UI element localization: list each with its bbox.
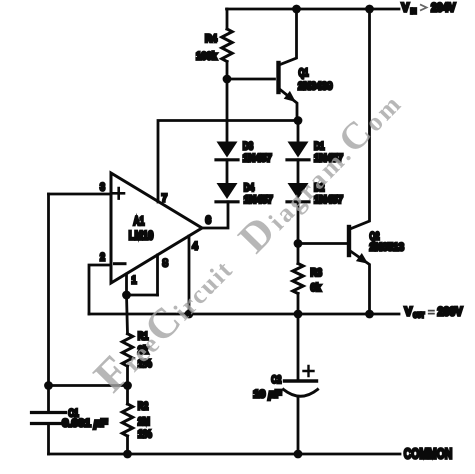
svg-text:IN: IN <box>411 7 417 16</box>
op-amp U1 A1 LM10 <box>100 173 211 287</box>
node R3 bottom VOUT <box>294 310 303 319</box>
svg-text:4: 4 <box>192 241 198 253</box>
node Q2 emitter VOUT <box>365 310 374 319</box>
diode D1 <box>287 141 343 184</box>
svg-text:6k: 6k <box>311 282 322 294</box>
node pin1 junction <box>122 291 131 300</box>
svg-text:1N457: 1N457 <box>244 194 273 206</box>
svg-text:R2: R2 <box>138 401 149 413</box>
wire pin1 to pin8 <box>127 294 158 297</box>
node Q2 collector on VIN rail <box>365 5 374 14</box>
wire top rail VIN <box>227 8 400 11</box>
svg-text:0.001 µF: 0.001 µF <box>62 418 108 430</box>
wire pin6 output to D4 <box>202 202 228 228</box>
svg-text:LM10: LM10 <box>129 229 154 243</box>
svg-text:D4: D4 <box>244 182 255 194</box>
svg-text:2: 2 <box>100 252 105 264</box>
resistor R3 <box>293 244 322 315</box>
svg-text:V: V <box>402 1 410 15</box>
svg-text:7: 7 <box>162 193 168 205</box>
net label VIN <box>402 1 456 16</box>
wire R4 node down to D3 <box>226 79 229 142</box>
diode D4 <box>216 182 273 206</box>
wire pin1 node down to R1 <box>127 295 128 334</box>
wire pin2 loop to VOUT line <box>89 265 111 314</box>
svg-text:200V: 200V <box>438 305 463 319</box>
node Q1 emitter / D1 top <box>294 116 303 125</box>
net label COMMON <box>404 446 453 463</box>
svg-text:D1: D1 <box>314 141 325 153</box>
wire tap to left rail <box>49 384 128 387</box>
capacitor C2 <box>253 314 317 454</box>
wire pin3 to left rail <box>49 193 112 196</box>
svg-text:10 µF: 10 µF <box>253 389 282 401</box>
wire left rail <box>47 194 50 412</box>
svg-text:2N3439: 2N3439 <box>298 81 333 93</box>
svg-text:2N6513: 2N6513 <box>370 242 405 254</box>
wire base of Q2 <box>298 242 347 245</box>
svg-text:R4: R4 <box>205 33 218 45</box>
wire D1 top lead <box>297 121 300 142</box>
svg-text:A1: A1 <box>133 214 144 228</box>
wire pin4 to VOUT <box>188 236 191 314</box>
capacitor C1 <box>32 408 108 455</box>
svg-text:100k: 100k <box>196 51 218 63</box>
resistor R4 <box>196 9 232 79</box>
net label VOUT <box>405 305 463 320</box>
resistor R2 <box>122 386 152 455</box>
svg-text:D3: D3 <box>243 141 254 153</box>
svg-text:R3: R3 <box>311 267 323 279</box>
wire R4 to Q1 base <box>227 78 275 81</box>
wire pin8 lead <box>156 255 159 295</box>
wire pin1 lead <box>125 274 128 295</box>
transistor Q1 <box>279 9 333 121</box>
svg-text:OUT: OUT <box>413 311 425 320</box>
node divider tap <box>123 381 132 390</box>
svg-text:Q1: Q1 <box>299 67 309 79</box>
svg-text:204V: 204V <box>431 1 456 15</box>
resistor R1 <box>122 331 152 386</box>
diode D3 <box>216 141 272 184</box>
node R4 base junction <box>223 75 232 84</box>
node pin4 VOUT <box>185 310 194 319</box>
svg-text:1N457: 1N457 <box>243 153 272 165</box>
svg-text:3: 3 <box>100 182 105 194</box>
node D2 R3 Q2 base junction <box>294 239 303 248</box>
node Q1 collector on VIN rail <box>292 5 301 14</box>
wire common line <box>49 453 401 456</box>
svg-text:1: 1 <box>132 275 137 287</box>
svg-text:COMMON: COMMON <box>404 446 453 463</box>
svg-text:2M: 2M <box>138 416 150 428</box>
svg-text:8: 8 <box>163 258 169 270</box>
svg-text:V: V <box>405 305 413 319</box>
svg-text:6: 6 <box>206 215 212 227</box>
node R2 bottom common <box>123 450 132 459</box>
wire pin7 riser and horizontal to emitter node <box>158 121 298 203</box>
svg-text:1%: 1% <box>138 429 152 441</box>
svg-text:C2: C2 <box>271 374 281 386</box>
node C2 common <box>294 450 303 459</box>
transistor Q2 <box>349 9 404 314</box>
node left rail tap <box>44 381 53 390</box>
wire VOUT line <box>89 313 399 316</box>
diode D2 <box>287 182 343 244</box>
